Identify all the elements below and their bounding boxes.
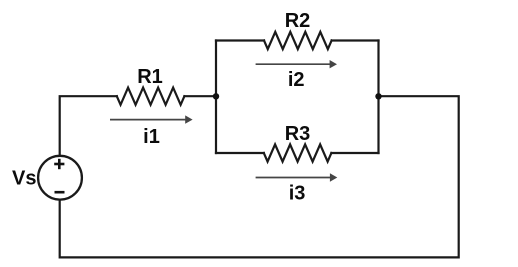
svg-text:i3: i3 — [289, 183, 306, 205]
svg-text:i1: i1 — [143, 126, 160, 148]
svg-text:R2: R2 — [285, 10, 311, 32]
svg-text:Vs: Vs — [12, 167, 36, 189]
svg-text:R1: R1 — [137, 66, 163, 88]
svg-text:R3: R3 — [285, 123, 311, 145]
svg-text:i2: i2 — [288, 69, 305, 91]
